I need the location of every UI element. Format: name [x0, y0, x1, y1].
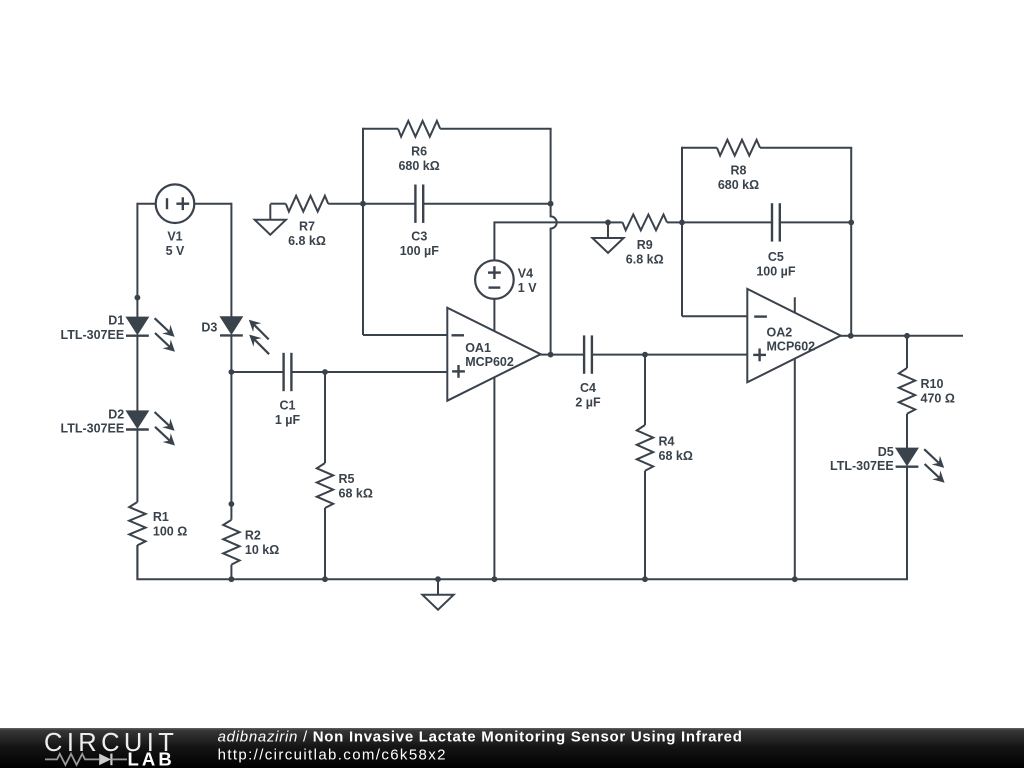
title bar background	[0, 728, 1024, 768]
svg-text:LTL-307EE: LTL-307EE	[61, 422, 125, 436]
wire R9 to feedback node	[667, 221, 682, 223]
svg-text:680 kΩ: 680 kΩ	[718, 178, 759, 192]
svg-text:1 V: 1 V	[518, 281, 537, 295]
svg-text:D5: D5	[878, 445, 894, 459]
wire D3 to C1 node	[230, 335, 232, 372]
node junction rail R5	[322, 576, 328, 582]
label C1 value	[275, 399, 301, 428]
wire OA2 bottom power	[794, 359, 796, 580]
wire OA2 top power stub	[794, 297, 796, 313]
svg-text:R1: R1	[153, 510, 169, 524]
svg-text:R8: R8	[731, 163, 747, 177]
svg-text:680 kΩ: 680 kΩ	[398, 159, 439, 173]
svg-text:68 kΩ: 68 kΩ	[339, 486, 373, 500]
wire feedback2 right vertical	[850, 148, 852, 336]
wire R10 top	[906, 336, 908, 368]
wire OA2 output right	[851, 335, 963, 337]
svg-text:1 µF: 1 µF	[275, 413, 301, 427]
wire ground to R9	[608, 221, 623, 223]
node junction OA2 output	[848, 333, 854, 339]
wire C3 row left	[363, 203, 415, 205]
wire R1 to rail	[136, 545, 138, 579]
label OA1	[465, 341, 514, 369]
capacitor C5	[772, 203, 780, 241]
node junction rail R2	[229, 576, 235, 582]
wire C4 to OA2 plus	[592, 354, 747, 356]
node junction D3/C1	[229, 369, 235, 375]
label D3	[201, 321, 217, 335]
node junction R9/C5	[679, 220, 685, 226]
capacitor C1	[284, 353, 292, 391]
node junction C4/R4	[642, 352, 648, 358]
resistor R4	[637, 425, 653, 471]
svg-text:OA2: OA2	[767, 326, 793, 340]
svg-text:2 µF: 2 µF	[575, 396, 601, 410]
wire V1 right	[194, 203, 231, 205]
resistor R2	[223, 520, 239, 565]
svg-text:D2: D2	[108, 408, 124, 422]
wire R8 row left	[682, 147, 717, 149]
ground at R7	[255, 204, 286, 235]
svg-text:MCP602: MCP602	[767, 340, 816, 354]
voltage source V1	[156, 184, 195, 223]
svg-text:LAB: LAB	[128, 748, 175, 768]
node junction R4 rail	[642, 576, 648, 582]
wire D5 to rail	[906, 467, 908, 580]
wire feedback2 left vertical	[681, 147, 683, 317]
label OA2	[767, 326, 816, 354]
label V1 value	[166, 230, 185, 259]
wire D1 to D2	[136, 336, 138, 412]
wire OA2 output lead	[840, 335, 852, 337]
voltage source V4	[475, 260, 514, 299]
svg-text:6.8 kΩ: 6.8 kΩ	[288, 234, 326, 248]
title text line 1	[218, 728, 743, 745]
label D2	[61, 408, 125, 436]
svg-text:OA1: OA1	[465, 341, 491, 355]
node junction OA2 power rail	[792, 576, 798, 582]
svg-text:R9: R9	[637, 238, 653, 252]
label D5	[830, 445, 894, 473]
svg-text:R5: R5	[339, 472, 355, 486]
LED D2	[126, 411, 175, 445]
capacitor C3	[415, 185, 423, 223]
wire R5 to rail	[324, 508, 326, 579]
label R10 value	[921, 377, 955, 406]
resistor R8	[717, 140, 760, 156]
svg-text:100 Ω: 100 Ω	[153, 524, 187, 538]
wire feedback1 right vertical with hop	[551, 129, 557, 355]
node junction OA1 output	[548, 352, 554, 358]
label R5 value	[339, 472, 373, 501]
svg-text:LTL-307EE: LTL-307EE	[61, 328, 125, 342]
wire D3 column lower	[230, 372, 232, 520]
logo CIRCUIT text	[44, 729, 178, 757]
resistor R6	[398, 121, 440, 137]
logo schematic squiggle	[45, 754, 127, 766]
wire V4 top	[494, 222, 608, 260]
label C4 value	[575, 381, 601, 410]
svg-text:R4: R4	[659, 434, 675, 448]
svg-text:R6: R6	[411, 145, 427, 159]
wire R10 to D5	[906, 414, 908, 449]
wire OA1 bottom power	[493, 377, 495, 579]
node junction C5 right	[848, 220, 854, 226]
wire R8 row right	[760, 147, 852, 149]
wire OA1 output lead	[540, 354, 551, 356]
label C3 value	[400, 230, 440, 259]
node junction C1/R5	[322, 369, 328, 375]
wire R4 to rail	[644, 471, 646, 579]
svg-text:R7: R7	[299, 219, 315, 233]
node junction above R2	[229, 501, 235, 507]
label V4 value	[518, 267, 537, 296]
node junction output/R10	[904, 333, 910, 339]
label R7 value	[288, 219, 326, 248]
wire ground to R7	[270, 203, 286, 205]
capacitor C4	[584, 335, 592, 373]
node junction left column	[135, 295, 141, 301]
wire D2 to R1	[136, 430, 138, 503]
node junction rail ground	[435, 576, 441, 582]
label C5 value	[756, 250, 796, 279]
svg-text:10 kΩ: 10 kΩ	[245, 543, 279, 557]
svg-text:V1: V1	[167, 230, 182, 244]
svg-text:C4: C4	[580, 381, 596, 395]
node junction V4/ground	[605, 220, 611, 226]
ground main	[422, 579, 453, 610]
resistor R10	[899, 368, 915, 414]
svg-text:C5: C5	[768, 250, 784, 264]
photodiode D3	[220, 317, 269, 354]
wire R2 to rail	[230, 565, 232, 580]
svg-text:http://circuitlab.com/c6k58x2: http://circuitlab.com/c6k58x2	[218, 747, 447, 764]
svg-text:68 kΩ: 68 kΩ	[659, 449, 693, 463]
wire V4 bottom to OA1 power	[493, 299, 495, 332]
label R2 value	[245, 529, 279, 558]
svg-text:D3: D3	[201, 321, 217, 335]
op-amp U1 OA1	[447, 308, 540, 401]
wire left column top	[136, 203, 138, 318]
resistor R9	[623, 215, 668, 231]
node junction C3 right	[548, 201, 554, 207]
svg-text:6.8 kΩ: 6.8 kΩ	[626, 253, 664, 267]
wire V1 left	[137, 203, 155, 205]
wire C5 row left	[682, 221, 772, 223]
wire bottom rail	[137, 466, 907, 579]
wire R4 top	[644, 355, 646, 425]
wire D3 column top	[230, 203, 232, 317]
LED D5	[896, 448, 945, 482]
wire OA1 out to C4	[551, 354, 585, 356]
svg-text:470 Ω: 470 Ω	[921, 392, 955, 406]
label R4 value	[659, 434, 693, 463]
wire C5 row right	[780, 221, 851, 223]
wire R7 to feedback node	[328, 203, 363, 205]
wire R6 row right	[440, 128, 551, 130]
svg-text:C1: C1	[280, 399, 296, 413]
wire R5 top	[324, 372, 326, 463]
svg-text:V4: V4	[518, 267, 533, 281]
resistor R1	[129, 502, 145, 545]
resistor R5	[317, 463, 333, 508]
resistor R7	[286, 196, 328, 212]
op-amp U2 OA2	[747, 289, 840, 382]
wire feedback1 left vertical	[362, 128, 364, 335]
svg-text:5 V: 5 V	[166, 244, 185, 258]
svg-text:100 µF: 100 µF	[756, 265, 796, 279]
svg-text:adibnazirin / Non Invasive Lac: adibnazirin / Non Invasive Lactate Monit…	[218, 728, 743, 745]
svg-text:LTL-307EE: LTL-307EE	[830, 459, 894, 473]
wire OA2 minus input	[682, 315, 747, 317]
svg-text:D1: D1	[108, 314, 124, 328]
svg-text:C3: C3	[411, 230, 427, 244]
svg-text:R2: R2	[245, 529, 261, 543]
label R8 value	[718, 163, 759, 192]
label D1	[61, 314, 125, 342]
wire OA1 minus input	[363, 334, 447, 336]
wire C3 row right	[423, 203, 550, 205]
wire C1 right to OA1+	[291, 371, 447, 373]
node junction OA1 power rail	[492, 576, 498, 582]
LED D1	[126, 317, 175, 351]
wire R6 row left	[363, 128, 398, 130]
svg-text:R10: R10	[921, 377, 944, 391]
node junction R7/C3	[360, 201, 366, 207]
ground at R9	[592, 222, 623, 253]
logo LAB text	[128, 748, 175, 768]
title url line 2	[218, 747, 447, 764]
label R9 value	[626, 238, 664, 267]
svg-text:MCP602: MCP602	[465, 355, 514, 369]
svg-text:100 µF: 100 µF	[400, 244, 440, 258]
wire C1 left	[231, 371, 283, 373]
label R6 value	[398, 145, 439, 174]
label R1 value	[153, 510, 187, 539]
